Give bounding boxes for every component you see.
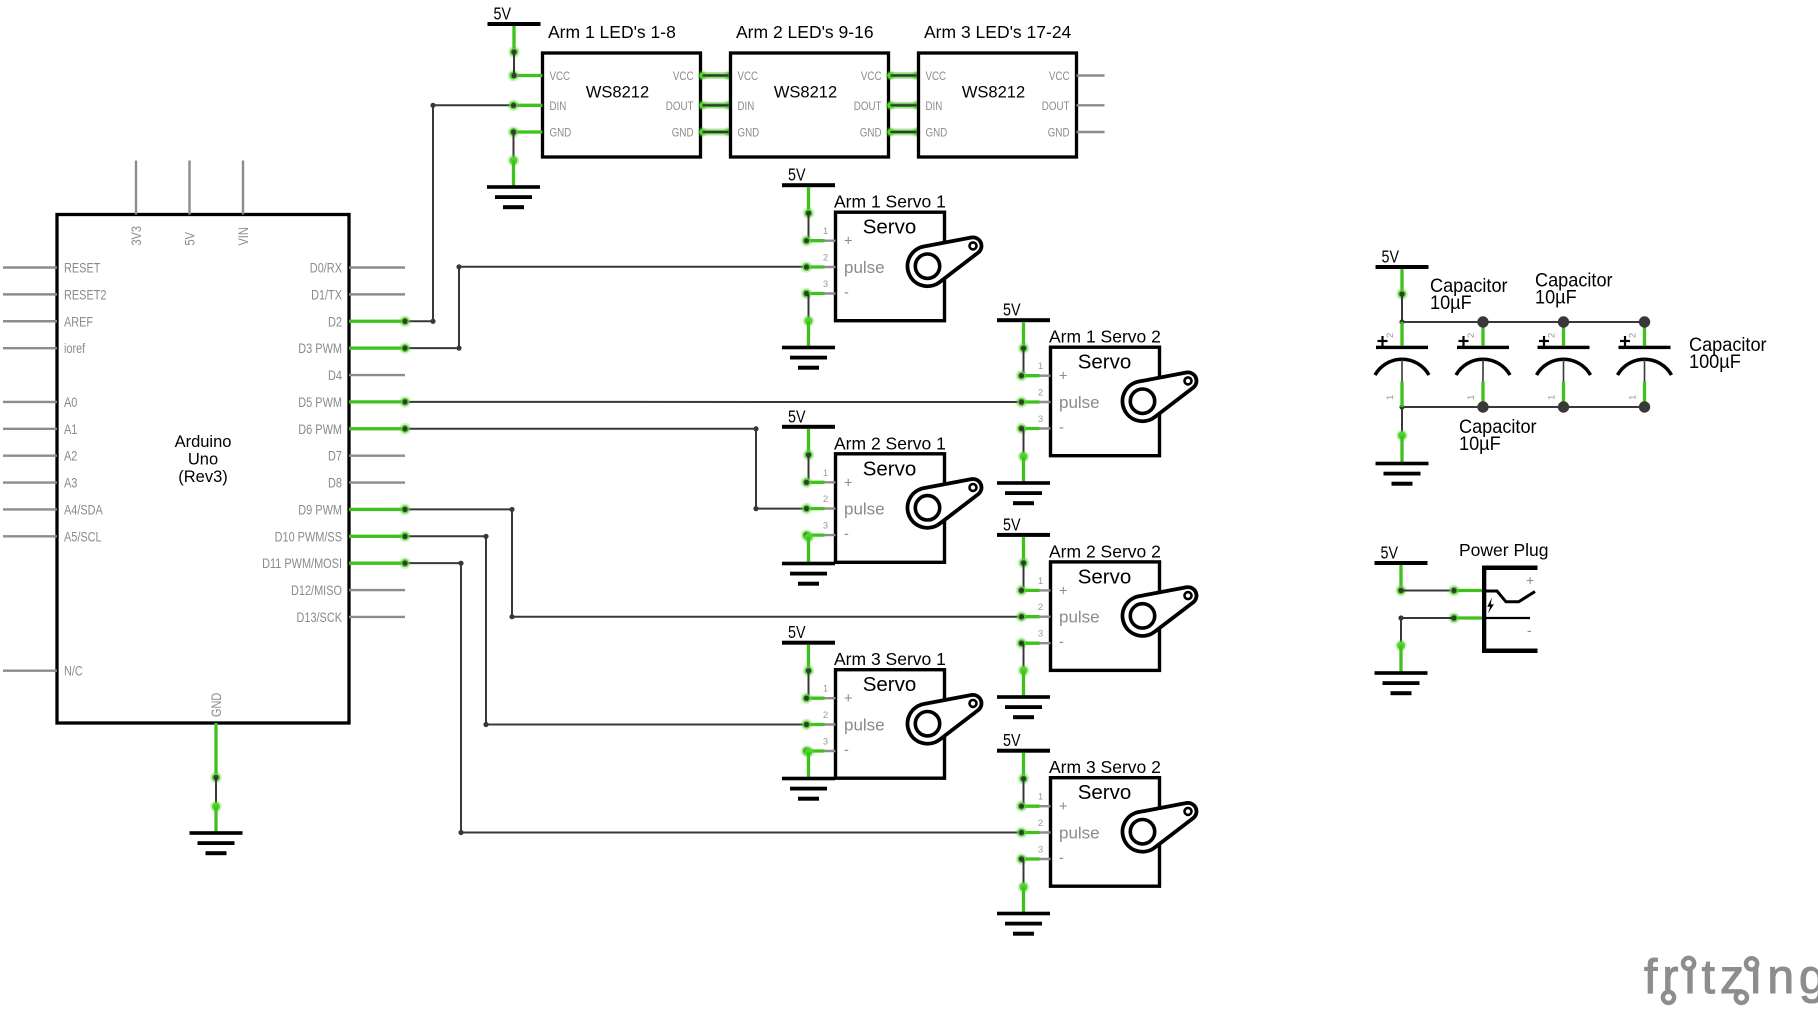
- wire D10 net: Arduino D10 to Arm 3 Servo 1 pulse: [405, 534, 807, 727]
- wire U2 GND to U3: [886, 127, 922, 137]
- Arduino pin 3V3 (top lead): [128, 161, 144, 246]
- wire 5V to U1 VCC: [511, 49, 516, 78]
- svg-text:1: 1: [1466, 395, 1477, 400]
- servo M4 pin 3 (-) lead: [1016, 629, 1051, 649]
- junction node top rail at C4 100uF: [1639, 316, 1650, 327]
- Arduino pin D9 PWM: [298, 501, 411, 517]
- wire U1 VCC to U2: [698, 71, 734, 81]
- Arduino pin A5/SCL: [3, 528, 102, 544]
- WS2812 module U3: Arm 3 LED's 17-24: [919, 22, 1077, 157]
- WS2812 module U2: Arm 2 LED's 9-16: [731, 22, 889, 157]
- svg-text:pulse: pulse: [844, 500, 885, 519]
- svg-text:10µF: 10µF: [1459, 433, 1501, 455]
- servo M2 Arm 1 Servo 2: [1049, 327, 1161, 456]
- svg-text:A5/SCL: A5/SCL: [64, 528, 102, 544]
- svg-text:D10 PWM/SS: D10 PWM/SS: [275, 528, 342, 544]
- svg-text:GND: GND: [926, 128, 948, 140]
- svg-text:2: 2: [1466, 333, 1477, 338]
- svg-text:-: -: [844, 527, 849, 543]
- servo M3 horn icon: [907, 479, 981, 528]
- ground symbol (Arm 2 Servo 2): [997, 665, 1050, 720]
- Arduino pin D7: [328, 448, 405, 464]
- svg-text:WS8212: WS8212: [774, 84, 837, 102]
- wire D2 net: Arduino D2 to WS2812 U1 DIN: [405, 103, 511, 324]
- Arduino pin RESET: [3, 260, 101, 276]
- svg-text:VCC: VCC: [550, 71, 571, 83]
- servo M1 pin 3 (-) lead: [801, 279, 836, 299]
- svg-text:3: 3: [823, 737, 828, 748]
- svg-text:WS8212: WS8212: [586, 84, 649, 102]
- svg-text:-: -: [1527, 622, 1532, 638]
- svg-text:GND: GND: [208, 693, 224, 717]
- svg-text:VCC: VCC: [738, 71, 759, 83]
- power plug J1: [1459, 540, 1549, 653]
- svg-text:+: +: [1526, 572, 1534, 588]
- svg-text:A4/SDA: A4/SDA: [64, 501, 103, 517]
- svg-text:DIN: DIN: [550, 101, 567, 113]
- Arduino pin D8: [328, 475, 405, 491]
- Arduino pin A2: [3, 448, 78, 464]
- servo M1 pin 2 (pulse) lead: [801, 253, 836, 273]
- svg-text:pulse: pulse: [844, 716, 885, 735]
- svg-text:frıtzıng: frıtzıng: [1644, 951, 1818, 1004]
- svg-text:D8: D8: [328, 475, 342, 491]
- power 5V symbol (Arm 3 Servo 2): [997, 730, 1050, 784]
- power plug pin + lead: [1448, 585, 1482, 597]
- svg-text:GND: GND: [550, 128, 572, 140]
- svg-text:Servo: Servo: [863, 216, 917, 239]
- svg-text:1: 1: [1038, 361, 1043, 372]
- WS2812 U3 pin GND (unconnected lead): [1077, 131, 1105, 133]
- svg-text:+: +: [1059, 799, 1067, 815]
- svg-text:Servo: Servo: [1078, 781, 1132, 804]
- svg-text:1: 1: [823, 468, 828, 479]
- servo M2 pin 1 (+) lead: [1016, 361, 1051, 381]
- svg-text:D3 PWM: D3 PWM: [298, 340, 342, 356]
- wire D6 net: Arduino D6 to Arm 2 Servo 1 pulse: [405, 426, 807, 511]
- ground symbol (power plug): [1375, 640, 1428, 696]
- servo M5 horn icon: [907, 695, 981, 744]
- svg-text:D12/MISO: D12/MISO: [291, 582, 342, 598]
- svg-text:D9 PWM: D9 PWM: [298, 501, 342, 517]
- Arduino pin A3: [3, 475, 78, 491]
- ground symbol (LED strips): [487, 155, 540, 210]
- servo M4 pin 2 (pulse) lead: [1016, 602, 1051, 622]
- svg-text:+: +: [1059, 369, 1067, 385]
- Arduino pin AREF: [3, 313, 93, 329]
- Arduino pin A0: [3, 394, 78, 410]
- wire U2 VCC to U3: [886, 71, 922, 81]
- svg-text:D4: D4: [328, 367, 342, 383]
- wire D11 net: Arduino D11 to Arm 3 Servo 2 pulse: [405, 561, 1022, 836]
- capacitor C2 10uF: [1456, 322, 1510, 407]
- svg-text:D11 PWM/MOSI: D11 PWM/MOSI: [262, 555, 342, 571]
- svg-text:10µF: 10µF: [1535, 287, 1577, 309]
- svg-text:2: 2: [823, 253, 828, 264]
- WS2812 U1 pin DIN lead: [508, 100, 543, 112]
- svg-text:pulse: pulse: [1059, 393, 1100, 412]
- svg-text:VCC: VCC: [673, 71, 694, 83]
- servo M1 pin 1 (+) lead: [801, 226, 836, 246]
- svg-text:1: 1: [1547, 395, 1558, 400]
- svg-text:2: 2: [1628, 333, 1639, 338]
- svg-text:3: 3: [823, 279, 828, 290]
- svg-text:2: 2: [1038, 818, 1043, 829]
- servo M3 Arm 2 Servo 1: [834, 433, 946, 562]
- ground symbol (Arm 1 Servo 1): [782, 315, 835, 370]
- servo M5 pin 3 (-) lead: [801, 737, 836, 757]
- junction node top rail at C3 10uF: [1558, 316, 1569, 327]
- wire Arm 2 Servo 2 - pin to ground: [1022, 643, 1024, 670]
- junction node bottom rail at C2 10uF: [1477, 401, 1488, 412]
- svg-text:1: 1: [823, 684, 828, 695]
- svg-text:Arm 2 LED's 9-16: Arm 2 LED's 9-16: [736, 22, 874, 42]
- servo M6 pin 1 (+) lead: [1016, 792, 1051, 812]
- svg-text:-: -: [1059, 851, 1064, 867]
- servo M1 horn icon: [907, 237, 981, 286]
- svg-text:DIN: DIN: [738, 101, 755, 113]
- svg-text:2: 2: [1547, 333, 1558, 338]
- svg-text:DOUT: DOUT: [666, 101, 694, 113]
- Arduino pin GND (bottom): [208, 693, 224, 784]
- svg-text:RESET: RESET: [64, 260, 101, 276]
- svg-text:D0/RX: D0/RX: [310, 260, 343, 276]
- svg-text:Servo: Servo: [863, 457, 917, 480]
- svg-text:D5 PWM: D5 PWM: [298, 394, 342, 410]
- Arduino pin D1/TX: [311, 286, 405, 302]
- svg-text:RESET2: RESET2: [64, 286, 107, 302]
- power 5V symbol (power plug): [1375, 543, 1428, 597]
- WS2812 U3 pin DOUT (unconnected lead): [1077, 104, 1105, 106]
- servo M3 pin 2 (pulse) lead: [801, 494, 836, 514]
- Arduino pin N/C: [3, 663, 83, 679]
- svg-text:D2: D2: [328, 313, 342, 329]
- svg-text:5V: 5V: [182, 232, 198, 246]
- svg-text:-: -: [1059, 635, 1064, 651]
- svg-text:2: 2: [1385, 333, 1396, 338]
- junction node top rail at C2 10uF: [1477, 316, 1488, 327]
- capacitor C1 10uF: [1375, 322, 1429, 407]
- svg-text:DOUT: DOUT: [854, 101, 882, 113]
- svg-text:Arduino: Arduino: [175, 433, 232, 451]
- wire 5V to Arm 1 Servo 2 + pin: [1021, 346, 1026, 376]
- ground symbol (Arm 1 Servo 2): [997, 451, 1050, 506]
- junction node bottom rail at C4 100uF: [1639, 401, 1650, 412]
- wire 5V to Arm 2 Servo 2 + pin: [1021, 560, 1026, 590]
- power 5V symbol (LED strips): [488, 4, 541, 58]
- svg-text:-: -: [844, 743, 849, 759]
- wire Arduino GND to ground: [213, 775, 218, 807]
- svg-text:Arm 2 Servo 1: Arm 2 Servo 1: [834, 433, 946, 453]
- Arduino pin D4: [328, 367, 405, 383]
- WS2812 U1 pin GND lead: [508, 126, 543, 138]
- svg-text:Servo: Servo: [1078, 565, 1132, 588]
- ground symbol (Arm 3 Servo 2): [997, 881, 1050, 936]
- svg-text:2: 2: [823, 710, 828, 721]
- svg-text:GND: GND: [738, 128, 760, 140]
- label capacitor C2 10uF: [1535, 270, 1613, 309]
- Arduino pin D10 PWM/SS: [275, 528, 411, 544]
- wire 5V to Arm 1 Servo 1 + pin: [806, 211, 811, 241]
- svg-text:-: -: [1059, 420, 1064, 436]
- servo M1 Arm 1 Servo 1: [834, 192, 946, 321]
- servo M3 pin 3 (-) lead: [801, 521, 836, 541]
- Arduino pin D13/SCK: [297, 609, 406, 625]
- servo M6 pin 2 (pulse) lead: [1016, 818, 1051, 838]
- svg-text:pulse: pulse: [844, 258, 885, 277]
- ground symbol (Arm 2 Servo 1): [782, 531, 835, 586]
- svg-text:A2: A2: [64, 448, 78, 464]
- svg-text:VCC: VCC: [926, 71, 947, 83]
- svg-text:+: +: [844, 691, 852, 707]
- WS2812 U3 pin VCC (unconnected lead): [1077, 74, 1105, 76]
- wire bottom rail to ground: [1401, 407, 1403, 436]
- IC U4 Arduino Uno (Rev3): [57, 215, 349, 724]
- svg-text:-: -: [844, 285, 849, 301]
- svg-text:Arm 3 LED's 17-24: Arm 3 LED's 17-24: [924, 22, 1072, 42]
- svg-text:VIN: VIN: [235, 227, 251, 245]
- svg-text:D1/TX: D1/TX: [311, 286, 342, 302]
- wire +5V top rail: [1399, 319, 1644, 324]
- wire Arm 3 Servo 1 - pin to ground: [0, 0, 1, 1]
- svg-text:DOUT: DOUT: [1042, 101, 1070, 113]
- svg-text:Arm 2 Servo 2: Arm 2 Servo 2: [1049, 541, 1161, 561]
- wire 5V to Arm 3 Servo 2 + pin: [1021, 776, 1026, 806]
- svg-text:AREF: AREF: [64, 313, 93, 329]
- svg-text:3: 3: [823, 521, 828, 532]
- servo M6 horn icon: [1122, 803, 1196, 852]
- svg-text:VCC: VCC: [861, 71, 882, 83]
- svg-text:3: 3: [1038, 414, 1043, 425]
- svg-text:GND: GND: [860, 128, 882, 140]
- wire Arm 2 Servo 1 - pin to ground: [0, 0, 1, 1]
- wire D3 net: Arduino D3 to Arm 1 Servo 1 pulse: [405, 264, 807, 351]
- power 5V symbol (Arm 3 Servo 1): [782, 622, 835, 676]
- capacitor C3 10uF: [1537, 322, 1591, 407]
- svg-text:DIN: DIN: [926, 101, 943, 113]
- power 5V symbol (Arm 2 Servo 1): [782, 406, 835, 460]
- svg-text:GND: GND: [672, 128, 694, 140]
- svg-text:1: 1: [1385, 395, 1396, 400]
- Arduino pin D2: [328, 313, 411, 329]
- wire 5V to Arm 2 Servo 1 + pin: [806, 452, 811, 482]
- capacitor C4 100uF: [1618, 322, 1672, 407]
- servo M4 horn icon: [1122, 587, 1196, 636]
- servo M6 pin 3 (-) lead: [1016, 845, 1051, 865]
- wire U1 DOUT-DIN to U2: [698, 100, 734, 110]
- wire Arm 1 Servo 1 - pin to ground: [807, 294, 809, 322]
- WS2812 module U1: Arm 1 LED's 1-8: [543, 22, 701, 157]
- power 5V symbol (capacitor bank): [1376, 247, 1429, 300]
- svg-text:Arm 1 Servo 1: Arm 1 Servo 1: [834, 192, 946, 212]
- svg-text:Arm 3 Servo 2: Arm 3 Servo 2: [1049, 757, 1161, 777]
- wire 5V to power plug +: [1398, 588, 1454, 593]
- svg-text:+: +: [844, 475, 852, 491]
- svg-text:N/C: N/C: [64, 663, 83, 679]
- servo M5 pin 2 (pulse) lead: [801, 710, 836, 730]
- servo M2 pin 2 (pulse) lead: [1016, 388, 1051, 408]
- svg-text:ioref: ioref: [64, 340, 85, 356]
- svg-text:pulse: pulse: [1059, 824, 1100, 843]
- servo M2 pin 3 (-) lead: [1016, 414, 1051, 434]
- Arduino pin RESET2: [3, 286, 107, 302]
- svg-text:100µF: 100µF: [1689, 351, 1741, 373]
- servo M4 pin 1 (+) lead: [1016, 576, 1051, 596]
- svg-text:1: 1: [823, 226, 828, 237]
- svg-text:1: 1: [1038, 576, 1043, 587]
- power plug pin - lead: [1448, 612, 1482, 624]
- svg-text:D7: D7: [328, 448, 342, 464]
- power 5V symbol (Arm 1 Servo 1): [782, 165, 835, 219]
- svg-text:A3: A3: [64, 475, 78, 491]
- Arduino pin D3 PWM: [298, 340, 411, 356]
- svg-text:+: +: [1059, 583, 1067, 599]
- servo M4 Arm 2 Servo 2: [1049, 541, 1161, 670]
- svg-text:GND: GND: [1048, 128, 1070, 140]
- Arduino pin A4/SDA: [3, 501, 103, 517]
- label capacitor C3 10uF: [1459, 416, 1537, 455]
- svg-text:3: 3: [1038, 845, 1043, 856]
- wire 5V to Arm 3 Servo 1 + pin: [806, 668, 811, 698]
- svg-text:2: 2: [1038, 602, 1043, 613]
- ground symbol (Arm 3 Servo 1): [782, 746, 835, 801]
- ground symbol (Arduino GND): [190, 801, 243, 856]
- Arduino pin ioref: [3, 340, 85, 356]
- wire U1 GND to ground: [513, 132, 515, 161]
- power 5V symbol (Arm 2 Servo 2): [997, 514, 1050, 568]
- svg-text:Arm 1 LED's 1-8: Arm 1 LED's 1-8: [548, 22, 676, 42]
- svg-text:Servo: Servo: [1078, 351, 1132, 374]
- svg-text:3: 3: [1038, 629, 1043, 640]
- wire U1 GND to U2: [698, 127, 734, 137]
- servo M2 horn icon: [1122, 372, 1196, 421]
- svg-text:A1: A1: [64, 421, 78, 437]
- svg-text:2: 2: [823, 494, 828, 505]
- svg-text:1: 1: [1628, 395, 1639, 400]
- svg-text:D13/SCK: D13/SCK: [297, 609, 343, 625]
- svg-text:+: +: [844, 234, 852, 250]
- junction node bottom rail at C3 10uF: [1558, 401, 1569, 412]
- wire Arm 3 Servo 2 - pin to ground: [1022, 859, 1024, 887]
- wire D9 net: Arduino D9 to Arm 2 Servo 2 pulse: [405, 507, 1022, 619]
- svg-text:2: 2: [1038, 388, 1043, 399]
- svg-text:Power Plug: Power Plug: [1459, 540, 1549, 560]
- svg-text:pulse: pulse: [1059, 608, 1100, 627]
- svg-text:Arm 3 Servo 1: Arm 3 Servo 1: [834, 649, 946, 669]
- WS2812 U1 pin VCC lead: [508, 70, 543, 82]
- svg-text:(Rev3): (Rev3): [178, 468, 228, 486]
- Arduino pin D0/RX: [310, 260, 405, 276]
- Arduino pin D11 PWM/MOSI: [262, 555, 411, 571]
- svg-text:3V3: 3V3: [128, 226, 144, 246]
- Arduino pin VIN (top lead): [235, 161, 251, 246]
- svg-text:WS8212: WS8212: [962, 84, 1025, 102]
- wire GND bottom rail: [1399, 404, 1644, 409]
- servo M5 pin 1 (+) lead: [801, 684, 836, 704]
- ground symbol (capacitor bank): [1376, 430, 1429, 486]
- svg-text:Arm 1 Servo 2: Arm 1 Servo 2: [1049, 327, 1161, 347]
- label capacitor C1 10uF: [1430, 275, 1508, 314]
- wire power plug - to ground: [1398, 615, 1454, 645]
- servo M5 Arm 3 Servo 1: [834, 649, 946, 778]
- Arduino pin 5V (top lead): [182, 161, 198, 246]
- wire U2 DOUT-DIN to U3: [886, 100, 922, 110]
- wire Arm 1 Servo 2 - pin to ground: [1022, 429, 1024, 457]
- fritzing watermark logo: [1644, 951, 1818, 1004]
- svg-text:Uno: Uno: [188, 451, 218, 469]
- power 5V symbol (Arm 1 Servo 2): [997, 300, 1050, 354]
- svg-text:D6 PWM: D6 PWM: [298, 421, 342, 437]
- servo M3 pin 1 (+) lead: [801, 468, 836, 488]
- wire D5 net: Arduino D5 to Arm 1 Servo 2 pulse: [405, 401, 1022, 403]
- wire 5V to +5V rail: [1399, 291, 1404, 322]
- Arduino pin A1: [3, 421, 78, 437]
- svg-text:VCC: VCC: [1049, 71, 1070, 83]
- svg-text:A0: A0: [64, 394, 78, 410]
- Arduino pin D6 PWM: [298, 421, 411, 437]
- Arduino pin D12/MISO: [291, 582, 405, 598]
- servo M6 Arm 3 Servo 2: [1049, 757, 1161, 886]
- svg-text:Servo: Servo: [863, 673, 917, 696]
- label capacitor C4 100uF: [1689, 334, 1767, 373]
- Arduino pin D5 PWM: [298, 394, 411, 410]
- svg-text:10µF: 10µF: [1430, 292, 1472, 314]
- svg-text:1: 1: [1038, 792, 1043, 803]
